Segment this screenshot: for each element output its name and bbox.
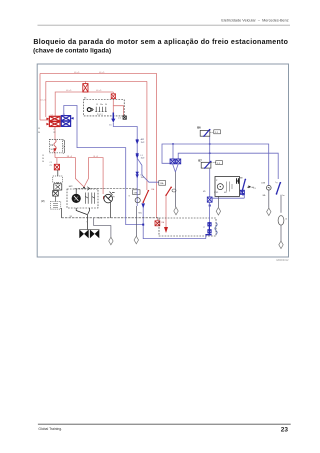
svg-text:Z1: Z1 (50, 165, 52, 167)
svg-text:C1: C1 (51, 115, 53, 117)
svg-text:L0 +5: L0 +5 (99, 72, 105, 74)
svg-text:(M): (M) (41, 200, 45, 203)
svg-text:98 +5: 98 +5 (67, 156, 73, 158)
svg-text:1g: 1g (113, 196, 115, 198)
svg-text:Global Training.: Global Training. (38, 427, 62, 431)
svg-text:23: 23 (281, 427, 289, 434)
svg-text:P 0 1 2: P 0 1 2 (97, 114, 103, 116)
svg-text:15A: 15A (160, 182, 164, 185)
svg-text:15/1: 15/1 (141, 177, 145, 179)
svg-text:15: 15 (42, 155, 44, 157)
svg-text:M/Ix: M/Ix (139, 212, 142, 214)
svg-text:S06: S06 (51, 149, 54, 151)
svg-text:L0 +5: L0 +5 (96, 90, 102, 92)
svg-text:B6: B6 (197, 126, 201, 130)
svg-text:M5: M5 (203, 191, 206, 193)
svg-text:30: 30 (105, 104, 107, 106)
svg-text:A52: A52 (141, 138, 144, 141)
svg-text:C1: C1 (50, 162, 52, 164)
svg-text:15/2: 15/2 (141, 158, 145, 160)
svg-text:1g: 1g (275, 182, 277, 184)
svg-text:L0 +5: L0 +5 (74, 72, 80, 74)
svg-text:Bloqueio da parada do motor se: Bloqueio da parada do motor sem a aplica… (33, 39, 288, 46)
svg-text:L0 +5: L0 +5 (40, 99, 46, 101)
svg-text:16: 16 (285, 219, 287, 221)
svg-text:50: 50 (42, 161, 44, 163)
svg-text:M4: M4 (224, 192, 227, 194)
svg-text:15: 15 (96, 104, 98, 106)
svg-text:Eletricidade Veicular – Merc: Eletricidade Veicular – Mercedes-Benz (221, 19, 288, 23)
svg-text:GB003312: GB003312 (276, 258, 289, 262)
svg-text:30: 30 (42, 158, 44, 160)
svg-text:B7: B7 (198, 158, 202, 162)
svg-text:50a: 50a (100, 104, 103, 106)
svg-text:WS/1: WS/1 (214, 192, 218, 194)
svg-text:15/2: 15/2 (141, 142, 145, 144)
svg-text:2.1: 2.1 (118, 117, 121, 119)
svg-text:C3/8: C3/8 (261, 182, 265, 184)
svg-text:(chave de contato ligada): (chave de contato ligada) (33, 47, 111, 54)
svg-text:17: 17 (203, 227, 205, 229)
svg-text:L0 +5: L0 +5 (66, 90, 72, 92)
